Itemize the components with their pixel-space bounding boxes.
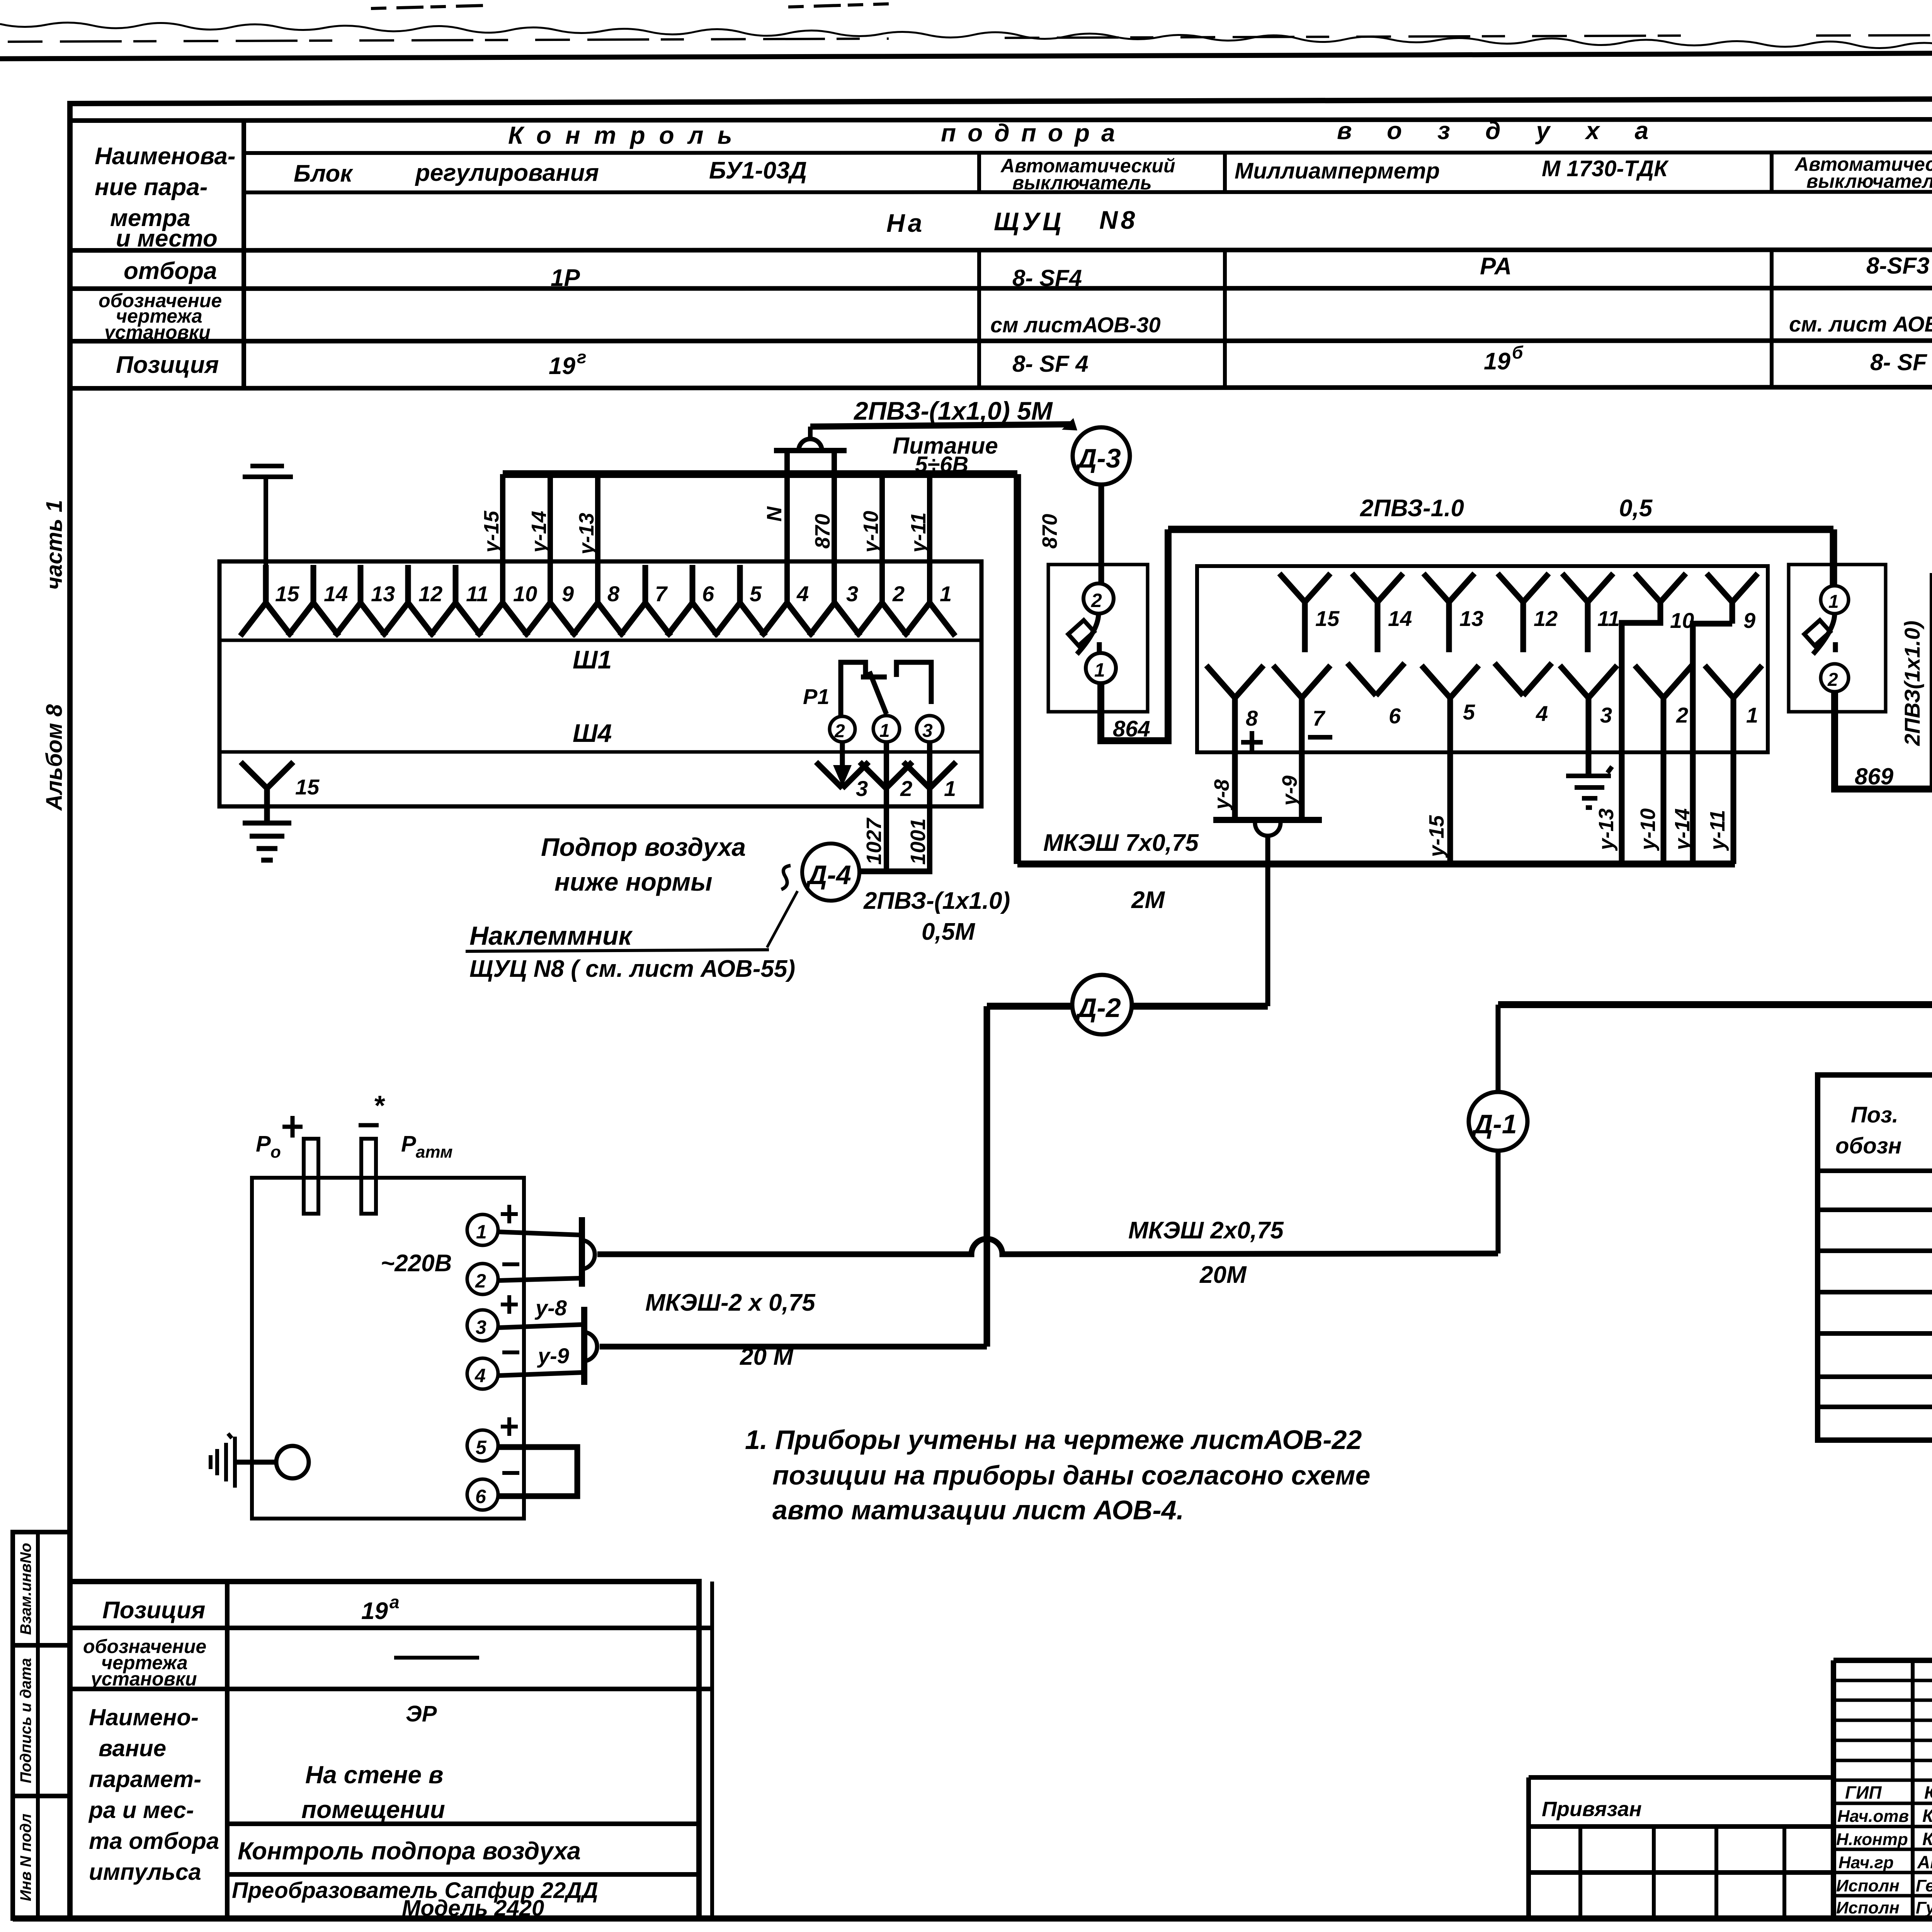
svg-text:М 1730-ТДК: М 1730-ТДК xyxy=(1542,156,1669,181)
transducer pin circle 6 xyxy=(467,1479,498,1510)
svg-text:Н.контр: Н.контр xyxy=(1836,1830,1908,1849)
wire from terminal 10 down left xyxy=(1622,602,1660,864)
svg-text:2: 2 xyxy=(900,776,912,801)
parts table outline xyxy=(1818,1075,1932,1440)
svg-text:4: 4 xyxy=(474,1365,486,1386)
bottom-left table outline xyxy=(70,1582,699,1918)
svg-text:у-13: у-13 xyxy=(575,513,598,556)
scan top squiggle line 1 xyxy=(0,22,1932,56)
middle bottom terminal 4 (V only) xyxy=(1495,663,1552,696)
svg-text:см листАОВ-30: см листАОВ-30 xyxy=(990,313,1161,337)
svg-text:см. лист АОВ-30: см. лист АОВ-30 xyxy=(1789,312,1932,336)
svg-text:ЩУЦ N8 ( см. лист АОВ-55): ЩУЦ N8 ( см. лист АОВ-55) xyxy=(469,956,795,982)
device circle Д-3 xyxy=(1073,427,1130,485)
svg-text:2ПВЗ-1.0: 2ПВЗ-1.0 xyxy=(1360,495,1464,522)
top table outer horizontals xyxy=(70,119,1932,388)
wire 1027 from pin 1 down to Д-4 xyxy=(884,742,889,870)
svg-text:у-8: у-8 xyxy=(534,1296,567,1320)
transducer pin circle 5 xyxy=(467,1430,498,1461)
bracket 2 (pins 3-4) xyxy=(581,1307,587,1385)
svg-text:15: 15 xyxy=(295,775,320,799)
bracket 1 semicircle xyxy=(583,1240,595,1269)
svg-text:864: 864 xyxy=(1113,716,1150,742)
svg-text:Подпись и дата: Подпись и дата xyxy=(17,1658,34,1783)
svg-text:2ПВЗ-(1х1,0) 5М: 2ПВЗ-(1х1,0) 5М xyxy=(853,396,1053,425)
svg-text:8- SF 4: 8- SF 4 xyxy=(1012,351,1088,377)
svg-text:воздуха: воздуха xyxy=(1337,117,1684,145)
terminal 11 xyxy=(430,565,481,636)
svg-text:Позиция: Позиция xyxy=(102,1597,205,1624)
plus at pin1 xyxy=(501,1205,518,1223)
terminal block inner line above bottom band xyxy=(219,750,981,754)
supply tap bar xyxy=(774,448,847,453)
shield symbol above terminal 15 xyxy=(243,466,293,565)
minus at pin2 xyxy=(502,1262,519,1266)
middle terminal 9 xyxy=(1707,573,1758,602)
svg-text:Герасимова: Герасимова xyxy=(1916,1876,1932,1895)
wire Д-2 horizontal run xyxy=(987,1003,1268,1010)
terminal block Ш1/Ш4 outline xyxy=(219,561,981,806)
stub pin3 to bracket xyxy=(498,1325,582,1328)
stamp column inner vertical xyxy=(36,1532,40,1918)
svg-text:2: 2 xyxy=(1091,590,1102,611)
bottom-left rows xyxy=(70,1628,712,1874)
transducer pin circle 3 xyxy=(467,1310,498,1341)
stub pin4 to bracket xyxy=(498,1372,582,1376)
svg-text:2: 2 xyxy=(834,721,845,742)
svg-text:869: 869 xyxy=(1855,764,1894,789)
svg-text:Д-3: Д-3 xyxy=(1075,443,1121,473)
breaker box1 pin circle 2 xyxy=(1083,583,1114,614)
ground symbol under terminal 3 xyxy=(1566,767,1612,808)
arrow blob at Д-3 end xyxy=(1062,418,1077,430)
relay P1 pin circle 3 xyxy=(917,716,943,742)
bottom terminal 2 xyxy=(860,762,912,788)
plus at pin3 xyxy=(501,1295,518,1314)
wire МКЭШ-2х0,75 from у-8/у-9 bracket to riser xyxy=(600,1344,987,1350)
cable bus corner down to lower run xyxy=(1014,474,1021,864)
wire 1001 from pin 3 down to Д-4 xyxy=(927,742,932,870)
middle terminal box outline xyxy=(1197,566,1768,752)
svg-text:Взам.инвNo: Взам.инвNo xyxy=(17,1543,34,1635)
svg-text:19: 19 xyxy=(1484,348,1510,375)
svg-text:9: 9 xyxy=(562,582,574,606)
svg-text:5: 5 xyxy=(476,1437,487,1458)
svg-text:1Р: 1Р xyxy=(551,265,580,291)
relay P1 pin circle 1 xyxy=(873,716,900,742)
svg-text:Наименова-: Наименова- xyxy=(95,143,236,170)
svg-text:Козлов: Козлов xyxy=(1922,1829,1932,1849)
svg-text:часть 1: часть 1 xyxy=(42,500,67,590)
svg-text:Наклеммник: Наклеммник xyxy=(469,921,633,951)
svg-text:отбора: отбора xyxy=(124,258,217,284)
wire from box1 pin1 down and around xyxy=(1101,529,1168,741)
stamp column outer box xyxy=(13,1532,70,1918)
svg-text:3: 3 xyxy=(476,1316,486,1338)
terminal 6 xyxy=(667,565,718,636)
wire 870 from terminal 3 to supply tap xyxy=(832,452,837,603)
svg-text:МКЭШ 7х0,75: МКЭШ 7х0,75 xyxy=(1043,830,1199,856)
svg-text:0,5: 0,5 xyxy=(1619,495,1653,522)
svg-text:Блок: Блок xyxy=(294,160,353,187)
relay P1 pin circle 2 xyxy=(830,716,855,742)
svg-text:9: 9 xyxy=(1743,608,1755,633)
svg-text:МКЭШ 2х0,75: МКЭШ 2х0,75 xyxy=(1128,1217,1284,1244)
svg-text:11: 11 xyxy=(466,582,488,606)
middle bottom terminal 1 xyxy=(1705,665,1762,864)
breaker box2 pin circle 1 xyxy=(1821,586,1849,614)
transducer ground circle xyxy=(276,1446,309,1478)
svg-text:1: 1 xyxy=(476,1221,487,1243)
svg-text:15: 15 xyxy=(275,582,299,606)
svg-text:выключатель: выключатель xyxy=(1012,172,1152,194)
terminal 4 xyxy=(762,603,813,636)
plus mark under terminal 8 xyxy=(1241,731,1263,753)
svg-text:1: 1 xyxy=(1746,703,1758,727)
bracket 2 semicircle xyxy=(586,1332,597,1361)
terminal 5 xyxy=(714,565,765,636)
svg-text:1: 1 xyxy=(879,721,890,741)
svg-text:ниже нормы: ниже нормы xyxy=(554,867,713,896)
top table inner horizontals xyxy=(244,152,1932,192)
cable from bar down to Д-2 line xyxy=(1265,836,1270,1006)
svg-text:8- SF4: 8- SF4 xyxy=(1012,265,1082,291)
wire у-10 from terminal 2 to bus xyxy=(879,474,885,603)
scan smudge top-left xyxy=(371,4,889,9)
terminal 7 xyxy=(620,565,671,636)
svg-text:Исполн: Исполн xyxy=(1836,1898,1900,1917)
terminal 2 xyxy=(857,603,908,636)
note underline xyxy=(466,950,769,951)
svg-text:Альбом 8: Альбом 8 xyxy=(42,704,67,811)
svg-text:у-10: у-10 xyxy=(859,511,883,554)
svg-text:5: 5 xyxy=(1463,700,1475,724)
dash in обозначение row xyxy=(394,1656,479,1660)
svg-text:10: 10 xyxy=(513,582,537,606)
top table inner verticals xyxy=(979,152,1932,388)
top table verticals xyxy=(244,119,1932,388)
terminal 12 xyxy=(383,565,434,636)
svg-text:Д-1: Д-1 xyxy=(1471,1109,1517,1139)
svg-text:6: 6 xyxy=(1389,704,1401,728)
svg-text:2: 2 xyxy=(1676,703,1688,727)
svg-text:Р1: Р1 xyxy=(803,684,830,709)
supply tap dome xyxy=(799,439,822,451)
device circle Д-4 xyxy=(802,844,859,901)
svg-text:обозн: обозн xyxy=(1835,1133,1901,1158)
minus mark under terminal 7 xyxy=(1308,735,1332,740)
svg-text:Нач.гр: Нач.гр xyxy=(1838,1853,1894,1872)
frame left vertical xyxy=(67,104,73,1918)
svg-text:Наимено-: Наимено- xyxy=(89,1704,199,1730)
svg-text:а: а xyxy=(389,1592,400,1612)
svg-text:N: N xyxy=(763,506,786,522)
svg-text:8-SF3: 8-SF3 xyxy=(1866,253,1929,279)
svg-text:ЭР: ЭР xyxy=(406,1701,437,1726)
middle bottom terminal 7 xyxy=(1273,665,1330,820)
svg-text:1001: 1001 xyxy=(906,818,930,865)
svg-text:8- SF 3: 8- SF 3 xyxy=(1870,349,1932,375)
middle terminal 13 xyxy=(1423,573,1475,652)
bracket 1 (pins 1-2) xyxy=(579,1217,585,1287)
svg-text:На стене в: На стене в xyxy=(305,1761,444,1789)
svg-text:Модель 2420: Модель 2420 xyxy=(402,1896,544,1921)
svg-text:12: 12 xyxy=(1534,606,1558,631)
wire Д-1 horizontal run to right riser xyxy=(1498,1001,1932,1008)
svg-text:Гужилкина: Гужилкина xyxy=(1916,1898,1932,1917)
svg-text:19: 19 xyxy=(549,353,575,379)
breaker symbol box2 xyxy=(1813,614,1835,654)
svg-text:1027: 1027 xyxy=(862,817,886,865)
svg-text:б: б xyxy=(1512,342,1524,362)
left extension verticals xyxy=(1580,1827,1784,1918)
svg-text:парамет-: парамет- xyxy=(89,1766,201,1792)
svg-text:ние пара-: ние пара- xyxy=(95,174,207,201)
svg-text:у-14: у-14 xyxy=(527,511,551,554)
svg-text:13: 13 xyxy=(371,582,395,606)
collector bar for у-8 у-9 xyxy=(1213,817,1322,823)
wire corner down from Д-2 line xyxy=(984,1006,990,1347)
wire from terminal 9 down left xyxy=(1693,602,1732,864)
svg-text:1. Приборы учтены на чертеже: 1. Приборы учтены на чертеже листАОВ-22 xyxy=(745,1425,1362,1455)
svg-text:позиции на приборы даны согл: позиции на приборы даны согласоно схеме xyxy=(772,1460,1370,1490)
svg-text:Нач.отв: Нач.отв xyxy=(1837,1807,1909,1826)
svg-text:13: 13 xyxy=(1459,606,1483,631)
svg-text:Контроль: Контроль xyxy=(508,121,746,149)
parts table horizontals xyxy=(1818,1171,1932,1407)
breaker box 1 xyxy=(1048,565,1148,712)
frame bottom horizontal xyxy=(13,1915,1932,1922)
stub pin1 to bracket xyxy=(498,1232,580,1235)
svg-text:подпора: подпора xyxy=(941,119,1127,147)
terminal 8 xyxy=(572,603,623,636)
svg-text:20 М: 20 М xyxy=(740,1344,794,1370)
svg-text:2ПВЗ-(1х1.0): 2ПВЗ-(1х1.0) xyxy=(863,888,1010,914)
svg-text:6: 6 xyxy=(702,582,714,606)
pressure port Ро xyxy=(304,1139,318,1214)
svg-text:Д-2: Д-2 xyxy=(1075,993,1121,1023)
svg-text:Козлов: Козлов xyxy=(1922,1806,1932,1826)
svg-text:5: 5 xyxy=(750,582,762,606)
wire Д-3 down to breaker box xyxy=(1099,485,1104,584)
middle terminal 12 xyxy=(1498,573,1549,652)
middle bottom terminal 3 xyxy=(1560,665,1617,775)
svg-text:МКЭШ-2 х 0,75: МКЭШ-2 х 0,75 xyxy=(645,1289,816,1316)
svg-text:ЩУЦ: ЩУЦ xyxy=(994,207,1064,236)
svg-text:8: 8 xyxy=(607,582,620,606)
svg-text:вание: вание xyxy=(99,1735,166,1761)
svg-text:у-10: у-10 xyxy=(1636,808,1660,851)
breaker box2 pin circle 2 xyxy=(1821,664,1849,692)
terminal 15 (top row) xyxy=(240,565,291,636)
wire N from terminal 4 to supply tap xyxy=(784,452,790,603)
wire у-13 from terminal 8 to bus xyxy=(595,474,600,603)
minus at pin6 xyxy=(502,1471,519,1475)
svg-text:3: 3 xyxy=(856,776,868,801)
svg-text:у-13: у-13 xyxy=(1595,808,1618,851)
svg-text:у-15: у-15 xyxy=(480,510,503,554)
transducer ground lead xyxy=(235,1460,276,1465)
arrow from pin 2 into bottom terminal 3 xyxy=(840,742,845,769)
svg-text:у-9: у-9 xyxy=(537,1344,569,1368)
svg-text:1: 1 xyxy=(940,582,952,606)
svg-text:Ш4: Ш4 xyxy=(573,719,612,747)
svg-text:20М: 20М xyxy=(1199,1262,1247,1288)
svg-text:6: 6 xyxy=(475,1486,486,1507)
transducer box Сапфир 22ДД xyxy=(252,1178,524,1519)
bottom terminal 3 xyxy=(816,762,869,788)
staff grid verticals xyxy=(1913,1660,1932,1918)
svg-text:БУ1-03Д: БУ1-03Д xyxy=(709,157,807,184)
svg-text:2: 2 xyxy=(475,1270,486,1292)
breaker symbol box1 xyxy=(1077,614,1099,654)
svg-text:ра и мес-: ра и мес- xyxy=(88,1797,194,1823)
wire у-15 from terminal 10 to bus xyxy=(500,474,505,603)
svg-text:Инв N подл: Инв N подл xyxy=(17,1814,34,1901)
svg-text:Привязан: Привязан xyxy=(1542,1798,1642,1821)
svg-text:2: 2 xyxy=(892,582,905,606)
ground symbol below terminal 15 xyxy=(243,823,291,860)
wire Д-1 vertical xyxy=(1496,1005,1501,1253)
svg-text:12: 12 xyxy=(418,582,442,606)
relay P1 contact symbol xyxy=(841,662,931,716)
svg-text:3: 3 xyxy=(1600,703,1612,727)
svg-text:На: На xyxy=(886,209,925,237)
pressure port Ратм xyxy=(361,1139,376,1214)
scan top thick border line xyxy=(0,50,1932,59)
middle bottom terminal 2 xyxy=(1635,665,1692,864)
svg-text:*: * xyxy=(373,1090,385,1121)
svg-text:Поз.: Поз. xyxy=(1851,1102,1898,1128)
svg-text:Контроль подпора воздуха: Контроль подпора воздуха xyxy=(238,1837,581,1865)
svg-text:у-11: у-11 xyxy=(1706,810,1729,851)
leader line from Д-4 to note xyxy=(767,891,798,947)
transducer pin circle 4 xyxy=(467,1358,498,1389)
svg-text:N8: N8 xyxy=(1099,206,1138,234)
svg-text:авто матизации лист АОВ-4.: авто матизации лист АОВ-4. xyxy=(772,1495,1184,1525)
svg-text:14: 14 xyxy=(324,582,348,606)
svg-text:установки: установки xyxy=(90,1668,197,1690)
svg-text:8: 8 xyxy=(1246,706,1258,730)
middle terminal 10 xyxy=(1635,573,1686,602)
svg-text:2ПВЗ(1х1.0): 2ПВЗ(1х1.0) xyxy=(1900,621,1924,746)
svg-text:ГИП: ГИП xyxy=(1845,1782,1882,1803)
frame top horizontal xyxy=(67,97,1932,104)
cable run МКЭШ 7х0,75 lower horizontal xyxy=(1017,861,1735,867)
plus at pin5 xyxy=(501,1417,518,1436)
svg-text:у-8: у-8 xyxy=(1210,779,1233,811)
svg-text:19: 19 xyxy=(361,1598,388,1624)
middle terminal 14 xyxy=(1352,573,1403,652)
transducer pin circle 2 xyxy=(467,1264,498,1294)
junction semicircle under bar xyxy=(1255,823,1281,836)
left extension box xyxy=(1529,1777,1833,1918)
stamp column separators xyxy=(13,1645,70,1796)
middle bottom terminal 6 (V only) xyxy=(1347,663,1405,696)
svg-text:11: 11 xyxy=(1597,606,1620,631)
bottom-left table col divider xyxy=(225,1582,230,1918)
svg-text:15: 15 xyxy=(1315,606,1340,631)
svg-text:у-15: у-15 xyxy=(1425,815,1448,858)
svg-text:3: 3 xyxy=(846,582,858,606)
stub pin2 to bracket xyxy=(498,1278,580,1281)
staff grid thin rows xyxy=(1833,1680,1932,1780)
svg-text:0,5М: 0,5М xyxy=(922,918,975,945)
svg-text:Р: Р xyxy=(401,1131,416,1156)
svg-text:Р: Р xyxy=(256,1131,271,1156)
svg-text:Исполн: Исполн xyxy=(1836,1876,1900,1895)
svg-text:о: о xyxy=(270,1143,281,1162)
cable 2ПВЗ to Д-3 xyxy=(810,424,1073,427)
cable bus horizontal (collector) xyxy=(503,470,1017,478)
device circle Д-1 xyxy=(1469,1092,1527,1151)
supply tap riser xyxy=(808,427,813,439)
terminal 14 xyxy=(288,565,339,636)
svg-text:помещении: помещении xyxy=(301,1796,445,1823)
transducer ground symbol xyxy=(211,1434,235,1488)
wire joining 1027/1001 to Д-4 xyxy=(859,869,932,874)
terminal 9 xyxy=(525,603,576,636)
svg-text:1: 1 xyxy=(944,776,956,801)
device circle Д-2 xyxy=(1072,975,1132,1034)
breaker box 2 xyxy=(1789,565,1886,712)
bottom terminal 15 xyxy=(241,762,293,821)
terminal 13 xyxy=(335,565,386,636)
plus mark at Ро xyxy=(282,1116,303,1138)
minus mark at Ратм xyxy=(359,1123,379,1128)
title block outer xyxy=(1833,1660,1932,1918)
bottom-left table double right border xyxy=(710,1582,714,1918)
svg-text:и место: и место xyxy=(116,225,218,252)
svg-text:~220В: ~220В xyxy=(381,1250,452,1277)
svg-text:Ш1: Ш1 xyxy=(573,645,612,674)
svg-text:РА: РА xyxy=(1480,253,1512,280)
jumper pins 5-6 xyxy=(498,1447,577,1496)
svg-text:Подпор воздуха: Подпор воздуха xyxy=(541,833,746,861)
svg-text:Д-4: Д-4 xyxy=(806,860,851,890)
wire 869 from box2 pin2 around to Д-6 riser xyxy=(1835,573,1932,789)
svg-text:870: 870 xyxy=(811,514,834,549)
middle terminal 11 xyxy=(1562,573,1613,652)
svg-text:у-14: у-14 xyxy=(1671,808,1694,851)
terminal 3 xyxy=(809,603,860,636)
terminal 10 xyxy=(477,603,528,636)
middle bottom terminal 8 xyxy=(1206,665,1264,820)
svg-text:Миллиамперметр: Миллиамперметр xyxy=(1235,158,1440,184)
cable 2ПВЗ-1.0 long horizontal xyxy=(1168,529,1833,587)
svg-text:14: 14 xyxy=(1388,606,1412,631)
scan top dashed smudge line xyxy=(8,33,1932,42)
svg-text:г: г xyxy=(577,347,587,367)
middle terminal 15 xyxy=(1279,573,1330,652)
bottom terminal 1 xyxy=(903,762,956,788)
wire у-11 from terminal 1 to bus xyxy=(927,474,932,603)
svg-text:5÷6В: 5÷6В xyxy=(915,452,968,477)
terminal 1 xyxy=(904,603,955,636)
svg-text:та отбора: та отбора xyxy=(89,1828,219,1854)
svg-text:4: 4 xyxy=(1536,701,1548,726)
squiggle at Д-4 left xyxy=(781,866,791,889)
wire у-14 from terminal 9 to bus xyxy=(548,474,553,603)
svg-text:7: 7 xyxy=(1313,706,1326,730)
svg-text:870: 870 xyxy=(1038,514,1061,549)
svg-text:импульса: импульса xyxy=(89,1859,201,1885)
minus at pin4 xyxy=(502,1350,519,1354)
svg-text:1: 1 xyxy=(1094,659,1105,681)
staff rows xyxy=(1833,1803,1932,1896)
svg-text:установки: установки xyxy=(103,321,211,343)
svg-text:у-11: у-11 xyxy=(907,512,930,554)
